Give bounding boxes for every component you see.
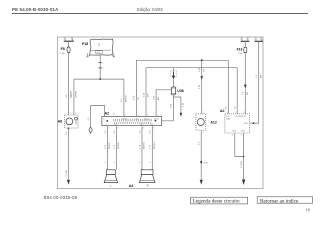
component A8 (pump with motor) (58, 79, 78, 128)
wire bus from P18 junction (left branch to A8, right branch to A2) (71, 79, 127, 116)
svg-text:0.35: 0.35 (143, 92, 145, 97)
svg-text:R: R (147, 184, 149, 187)
wire A8 to ground (66, 128, 69, 180)
radio unit A2 (102, 112, 162, 130)
svg-text:0.5: 0.5 (105, 130, 107, 134)
svg-text:30: 30 (240, 39, 243, 41)
svg-text:31: 31 (254, 39, 257, 41)
ground (center, under A12) (200, 180, 203, 185)
svg-text:30: 30 (246, 39, 249, 41)
svg-text:5: 5 (241, 135, 243, 137)
svg-text:L: L (110, 184, 112, 187)
svg-text:1: 1 (71, 113, 72, 115)
node right pin (253, 122, 255, 124)
svg-text:RAD: RAD (226, 118, 231, 121)
arrow into U38 (171, 68, 177, 87)
fuse F8 (60, 41, 70, 55)
svg-text:A12: A12 (210, 120, 216, 124)
component P18 (82, 39, 114, 57)
svg-text:0.5: 0.5 (121, 98, 123, 102)
svg-text:0.35: 0.35 (182, 102, 184, 107)
svg-text:30/61: 30/61 (122, 118, 128, 120)
svg-text:F8: F8 (61, 47, 65, 51)
wire U38 bottom into A2 right pin (158, 95, 174, 121)
svg-text:A2: A2 (105, 112, 110, 116)
svg-text:1: 1 (150, 161, 152, 163)
svg-text:0.75: 0.75 (114, 144, 116, 149)
wire right bus to A2 CD right pin (250, 41, 263, 123)
svg-text:A2: A2 (220, 109, 225, 113)
wire A12 to ground (199, 130, 209, 179)
svg-text:0.5: 0.5 (66, 94, 68, 98)
svg-text:BK/RD: BK/RD (109, 142, 111, 149)
fuse F13 (237, 41, 247, 55)
loudspeaker right (A4 R) (139, 168, 155, 187)
svg-text:0.5: 0.5 (199, 141, 201, 145)
svg-text:BN: BN (260, 75, 262, 78)
svg-text:W30: W30 (204, 163, 209, 165)
wire A2 to left speaker (+) (105, 126, 111, 170)
wire node to A12 (199, 60, 205, 114)
svg-text:0.75: 0.75 (139, 144, 141, 149)
svg-text:P18: P18 (82, 42, 88, 46)
svg-text:0.5: 0.5 (66, 131, 68, 135)
svg-text:B94.00-0345-09: B94.00-0345-09 (44, 195, 78, 200)
svg-text:1: 1 (105, 161, 107, 163)
svg-text:0.75: 0.75 (105, 144, 107, 149)
link button: Retornar ao indice (257, 197, 312, 205)
svg-text:BK/RD: BK/RD (76, 90, 78, 97)
wire horizontal 2 (A2 pin to A2 CD box, with U38 stub) (143, 68, 237, 117)
ground (right, under A2 CD) (242, 180, 245, 186)
svg-text:PE 54.00-B-0030-01A: PE 54.00-B-0030-01A (12, 7, 59, 12)
svg-text:A8: A8 (58, 120, 63, 124)
svg-text:x1: x1 (113, 114, 116, 116)
svg-text:BK: BK (158, 97, 160, 100)
svg-text:30: 30 (235, 106, 237, 109)
svg-text:Legenda deste circuito: Legenda deste circuito (193, 199, 240, 205)
connector U38 (171, 87, 184, 95)
svg-text:2: 2 (75, 113, 76, 115)
svg-text:0.5 BN: 0.5 BN (241, 161, 243, 168)
svg-text:0.5: 0.5 (139, 130, 141, 134)
node ground join (243, 156, 245, 158)
svg-text:0.35: 0.35 (171, 103, 173, 108)
svg-text:7.5A: 7.5A (60, 52, 65, 55)
svg-text:1: 1 (114, 161, 116, 163)
header rule (12, 13, 308, 15)
figure number (44, 195, 78, 200)
svg-text:GY: GY (203, 68, 205, 72)
terminal bus 30 (above F13) (240, 39, 249, 42)
page number (306, 207, 311, 212)
svg-text:2: 2 (203, 133, 205, 135)
link button: Legenda deste circuito (191, 197, 248, 205)
svg-text:0.5: 0.5 (114, 130, 116, 134)
header document number (12, 7, 59, 12)
svg-text:1: 1 (139, 161, 141, 163)
svg-text:5: 5 (143, 128, 145, 130)
svg-text:0.35: 0.35 (199, 84, 201, 89)
wire U38 branch to A2 top (left vertical from y=89.6) (153, 90, 171, 117)
svg-text:F13: F13 (237, 47, 243, 51)
svg-text:GND: GND (241, 131, 246, 133)
svg-text:30: 30 (63, 38, 66, 40)
svg-text:6: 6 (153, 128, 155, 130)
wire A2 to left speaker (-) (114, 126, 120, 170)
wire P18 to junction (99, 55, 105, 79)
terminal bus 31 (right) (254, 39, 263, 42)
svg-text:0.5 BN: 0.5 BN (66, 169, 68, 176)
svg-text:0.35: 0.35 (153, 95, 155, 100)
terminal bus 30 (above F8) (63, 38, 74, 41)
svg-text:U38: U38 (177, 89, 183, 93)
svg-text:WH: WH (148, 93, 150, 97)
svg-text:BK/RD: BK/RD (126, 95, 128, 102)
header edition (137, 7, 163, 12)
svg-text:2: 2 (102, 68, 104, 70)
svg-text:Edição: 04/03: Edição: 04/03 (137, 7, 163, 12)
svg-text:1.5: 1.5 (256, 74, 258, 78)
wire A2 to right speaker (+) (139, 126, 145, 170)
CD changer A2 (right box) (220, 109, 250, 137)
svg-text:1: 1 (102, 63, 104, 65)
svg-text:GND: GND (232, 131, 237, 133)
svg-text:A4: A4 (129, 184, 133, 188)
svg-text:BN/RD: BN/RD (144, 142, 146, 149)
node junction horizontal 1 / A12 (201, 59, 203, 61)
svg-text:Retornar ao índice: Retornar ao índice (260, 198, 299, 204)
wire A2 CD bottom pins to ground (235, 133, 244, 180)
svg-text:RD: RD (247, 91, 249, 95)
wire F8 to A8 (66, 52, 73, 115)
wire F13 to A2 CD box (243, 53, 249, 114)
ground (left, under A8) (67, 180, 70, 185)
svg-text:0.75: 0.75 (150, 144, 152, 149)
svg-text:2: 2 (118, 128, 120, 130)
svg-text:0.5: 0.5 (150, 130, 152, 134)
svg-text:4: 4 (232, 135, 234, 137)
svg-text:BK/WH: BK/WH (118, 141, 120, 149)
svg-text:7.5A: 7.5A (237, 52, 242, 55)
svg-text:30: 30 (71, 38, 74, 40)
svg-text:15: 15 (226, 106, 228, 109)
svg-text:BN/WH: BN/WH (154, 141, 156, 149)
wire U38 right stub with arrow (173, 97, 184, 117)
loudspeaker left (A4 L) (104, 168, 117, 187)
svg-text:1: 1 (109, 128, 111, 130)
svg-text:GND: GND (244, 123, 249, 125)
node A8 bottom (68, 128, 70, 130)
node junction P18 bus (99, 78, 101, 80)
svg-text:0.35: 0.35 (134, 95, 136, 100)
wire A2 to right speaker (-) (150, 126, 156, 170)
wire horizontal 1 (A2 pin to A2 CD box via node) (134, 60, 229, 116)
label A4 speakers (129, 184, 133, 188)
svg-text:CD/TAPE: CD/TAPE (235, 115, 244, 118)
svg-text:GY: GY (138, 96, 140, 100)
svg-text:0.5: 0.5 (243, 91, 245, 95)
svg-text:19: 19 (306, 207, 311, 212)
wire antenna branch with open arrow (88, 106, 105, 134)
component A12 (196, 112, 217, 134)
svg-text:0.5: 0.5 (88, 117, 90, 121)
